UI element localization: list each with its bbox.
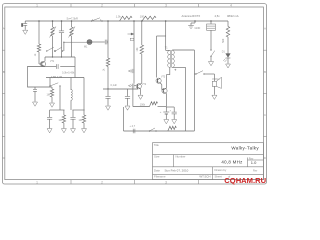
svg-text:3: 3 xyxy=(165,180,167,184)
svg-text:A: A xyxy=(3,27,5,31)
svg-text:+ 4,7: + 4,7 xyxy=(130,125,136,128)
svg-text:Date: Date xyxy=(154,168,160,172)
svg-text:8 Ohm: 8 Ohm xyxy=(212,78,219,81)
svg-text:Sheet: Sheet xyxy=(215,174,223,178)
svg-text:B: B xyxy=(264,70,266,74)
svg-text:VT1: VT1 xyxy=(50,61,55,63)
svg-text:Sv=7,5kR: Sv=7,5kR xyxy=(67,17,78,21)
svg-text:2: 2 xyxy=(101,4,103,8)
svg-text:0,3k+0,43k: 0,3k+0,43k xyxy=(62,72,75,75)
svg-text:1,5k: 1,5k xyxy=(116,15,122,19)
svg-text:WT.SCH: WT.SCH xyxy=(199,174,210,178)
svg-text:GND: GND xyxy=(195,26,201,30)
svg-text:1: 1 xyxy=(36,180,38,184)
svg-text:CQHAM.RU: CQHAM.RU xyxy=(224,176,266,185)
svg-text:560: 560 xyxy=(222,38,225,43)
svg-text:4,5v: 4,5v xyxy=(215,14,221,18)
svg-text:2: 2 xyxy=(101,180,103,184)
svg-text:100k: 100k xyxy=(140,104,146,107)
svg-text:VT2: VT2 xyxy=(142,84,147,86)
svg-text:0,1uF: 0,1uF xyxy=(111,84,118,87)
svg-text:1M: 1M xyxy=(79,119,82,122)
svg-text:Size: Size xyxy=(154,155,160,159)
svg-text:4: 4 xyxy=(230,4,232,8)
svg-text:Sun Feb 07, 2010: Sun Feb 07, 2010 xyxy=(165,168,189,172)
svg-text:Filename: Filename xyxy=(154,174,166,178)
svg-text:1: 1 xyxy=(36,4,38,8)
svg-text:3: 3 xyxy=(165,4,167,8)
svg-text:40,8 MHz: 40,8 MHz xyxy=(221,160,242,165)
svg-text:1.0: 1.0 xyxy=(251,160,257,165)
svg-text:1M: 1M xyxy=(47,94,50,97)
svg-text:100: 100 xyxy=(140,15,145,19)
svg-text:Drawn by: Drawn by xyxy=(215,168,227,172)
svg-text:Number: Number xyxy=(176,155,186,159)
svg-text:B: B xyxy=(3,70,5,74)
svg-text:Antenna RX/TX: Antenna RX/TX xyxy=(182,14,201,18)
svg-text:Title: Title xyxy=(154,143,160,147)
svg-text:1M: 1M xyxy=(59,119,62,122)
svg-text:08/22 mA: 08/22 mA xyxy=(227,14,239,18)
svg-text:VT3: VT3 xyxy=(161,76,166,78)
svg-text:Walky-Talky: Walky-Talky xyxy=(231,145,259,150)
svg-text:A: A xyxy=(264,27,266,31)
